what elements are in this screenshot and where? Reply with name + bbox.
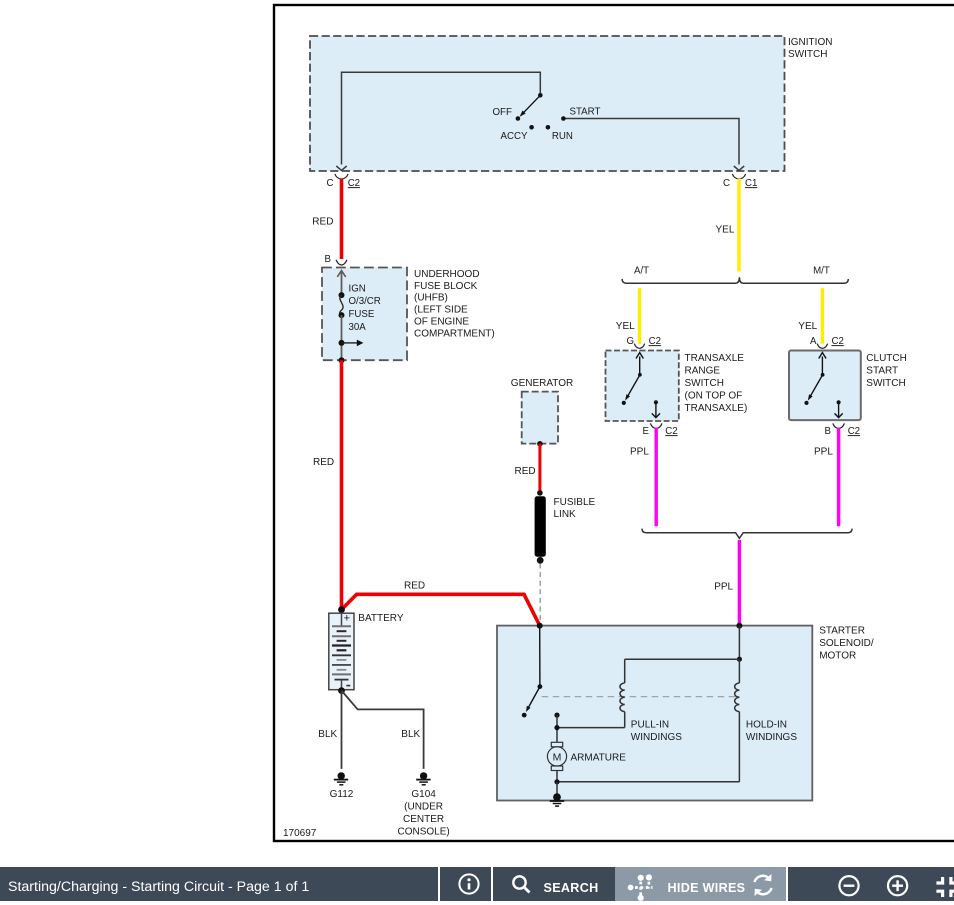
svg-text:HOLD-IN: HOLD-IN: [746, 719, 787, 730]
svg-text:FUSE BLOCK: FUSE BLOCK: [414, 281, 478, 292]
svg-text:(UHFB): (UHFB): [414, 293, 448, 304]
svg-text:(LEFT SIDE: (LEFT SIDE: [414, 305, 468, 316]
ground G112: [330, 772, 354, 800]
svg-text:RUN: RUN: [552, 131, 573, 142]
svg-text:PPL: PPL: [814, 446, 833, 457]
svg-text:PPL: PPL: [714, 582, 733, 593]
svg-text:ACCY: ACCY: [501, 131, 528, 142]
svg-text:STARTER: STARTER: [819, 626, 865, 637]
svg-text:LINK: LINK: [554, 509, 577, 520]
svg-text:COMPARTMENT): COMPARTMENT): [414, 328, 495, 339]
wire YEL M/T branch: [798, 288, 822, 344]
connector C2 pin E (transaxle range switch output): [643, 423, 678, 436]
svg-text:RANGE: RANGE: [685, 366, 721, 377]
wire ignition switch feed (left branch to C2): [336, 72, 540, 170]
node starter solenoid control feed: [736, 623, 742, 629]
starter solenoid contact switch: [522, 626, 543, 718]
svg-text:WINDINGS: WINDINGS: [746, 732, 797, 743]
inductor pull-in winding L1: [557, 659, 682, 743]
svg-text:SWITCH: SWITCH: [685, 378, 724, 389]
toolbar: [0, 867, 954, 901]
wire BLK (battery to G112): [318, 691, 341, 769]
svg-text:START: START: [866, 366, 898, 377]
wire PPL (clutch B to brace): [814, 428, 839, 527]
svg-text:FUSIBLE: FUSIBLE: [554, 497, 596, 508]
svg-text:RED: RED: [312, 217, 333, 228]
svg-text:OF ENGINE: OF ENGINE: [414, 317, 469, 328]
svg-text:BLK: BLK: [401, 729, 420, 740]
battery: [329, 606, 404, 694]
svg-text:START: START: [570, 107, 601, 118]
svg-text:OFF: OFF: [493, 107, 512, 118]
svg-text:IGNITION: IGNITION: [788, 37, 832, 48]
dashed mechanical link (solenoid plunger): [542, 696, 736, 698]
wire PPL (transaxle E to brace): [630, 428, 656, 527]
svg-text:E: E: [643, 426, 650, 437]
wire armature to ground: [554, 779, 559, 797]
svg-text:A: A: [810, 336, 817, 347]
toolbar title: [8, 870, 309, 904]
toolbar refresh icon: [750, 872, 776, 898]
svg-text:SOLENOID/: SOLENOID/: [819, 638, 874, 649]
generator box: [511, 378, 573, 447]
svg-text:(UNDER: (UNDER: [404, 802, 443, 813]
svg-text:CONSOLE): CONSOLE): [397, 826, 449, 837]
svg-text:PPL: PPL: [630, 446, 649, 457]
svg-text:ARMATURE: ARMATURE: [571, 753, 627, 764]
svg-text:UNDERHOOD: UNDERHOOD: [414, 269, 480, 280]
connector B (fuse block input): [325, 254, 348, 265]
starter solenoid/motor box: [497, 626, 874, 801]
svg-text:30A: 30A: [349, 322, 367, 333]
svg-text:G112: G112: [330, 789, 354, 800]
toolbar hide wires icon: [622, 869, 658, 901]
inductor hold-in winding L2: [557, 659, 797, 782]
connector C2 pin B (clutch start switch output): [825, 423, 861, 436]
brace A/T M/T split: [622, 266, 848, 284]
svg-text:C: C: [327, 178, 334, 189]
svg-text:MOTOR: MOTOR: [819, 651, 856, 662]
svg-text:B: B: [825, 426, 831, 437]
connector C2 pin A (clutch start switch): [810, 336, 844, 349]
svg-text:B: B: [325, 254, 331, 265]
wire YEL (C1 to brace): [716, 179, 740, 272]
ground starter motor: [550, 793, 564, 806]
wire PPL (brace to starter solenoid): [714, 540, 739, 626]
brace PPL merge: [642, 529, 852, 539]
svg-text:O/3/CR: O/3/CR: [349, 296, 381, 307]
diagram number 170697: [283, 828, 317, 839]
svg-text:RED: RED: [404, 581, 425, 592]
svg-text:M/T: M/T: [813, 266, 830, 277]
wire BLK (battery to G104): [342, 691, 424, 769]
underhood fuse block UHFB box: [322, 268, 495, 361]
transaxle range switch contact set: [622, 353, 660, 418]
toolbar collapse icon: [930, 870, 954, 900]
wire RED (fuse block to battery junction): [313, 360, 342, 609]
svg-text:(ON TOP OF: (ON TOP OF: [685, 390, 743, 401]
svg-text:C: C: [723, 178, 730, 189]
wire RED (generator to fusible link): [515, 444, 543, 496]
svg-text:YEL: YEL: [616, 321, 635, 332]
ignition switch IGNITION SWITCH box: [310, 36, 832, 171]
toolbar info icon: [454, 869, 484, 899]
svg-text:SWITCH: SWITCH: [866, 378, 905, 389]
svg-text:M: M: [553, 751, 562, 763]
svg-text:170697: 170697: [283, 828, 317, 839]
svg-text:TRANSAXLE: TRANSAXLE: [685, 353, 745, 364]
svg-text:BLK: BLK: [318, 729, 337, 740]
ground G104: [397, 772, 449, 837]
svg-text:FUSE: FUSE: [349, 309, 375, 320]
fuse IGN O/3/CR FUSE 30A: [337, 271, 381, 364]
fusible link: [535, 496, 596, 563]
wire ignition switch START branch to C1: [563, 119, 744, 171]
motor armature M: [547, 742, 626, 782]
svg-text:G: G: [627, 336, 635, 347]
toolbar search icon: [505, 869, 537, 901]
wire RED (battery feed to starter solenoid): [342, 581, 540, 626]
svg-text:A/T: A/T: [634, 266, 649, 277]
svg-text:IGN: IGN: [349, 283, 366, 294]
transaxle range switch box: [606, 351, 748, 422]
svg-text:SWITCH: SWITCH: [788, 49, 827, 60]
toolbar zoom out icon: [838, 871, 862, 899]
clutch start switch contact set: [804, 353, 842, 418]
wire YEL A/T branch: [616, 288, 640, 344]
connector C1 (ignition switch right): [723, 174, 757, 189]
toolbar zoom in icon: [886, 871, 910, 899]
svg-text:RED: RED: [515, 466, 536, 477]
svg-text:YEL: YEL: [798, 321, 817, 332]
node starter solenoid battery feed: [537, 623, 543, 629]
svg-text:G104: G104: [411, 789, 436, 800]
svg-text:CENTER: CENTER: [403, 814, 444, 825]
clutch start switch box: [789, 351, 907, 421]
page border frame: [274, 5, 954, 841]
connector C2 (ignition switch left): [327, 174, 361, 189]
svg-text:GENERATOR: GENERATOR: [511, 378, 573, 389]
svg-text:RED: RED: [313, 457, 334, 468]
wire armature feed: [554, 713, 559, 743]
ignition switch rotary contact S1: [493, 93, 601, 142]
svg-text:YEL: YEL: [716, 224, 735, 235]
wire windings feed: [625, 626, 742, 662]
svg-text:TRANSAXLE): TRANSAXLE): [685, 403, 748, 414]
svg-text:BATTERY: BATTERY: [358, 613, 404, 624]
toolbar hide wires segment: [615, 867, 786, 901]
svg-text:+: +: [344, 613, 350, 625]
svg-text:PULL-IN: PULL-IN: [631, 719, 669, 730]
svg-text:CLUTCH: CLUTCH: [866, 353, 907, 364]
connector C2 pin G (transaxle range switch): [627, 336, 661, 349]
svg-text:WINDINGS: WINDINGS: [631, 732, 682, 743]
wire RED (C2 to fuse block B): [312, 179, 341, 259]
wire dashed (fusible link to starter feed): [539, 564, 541, 625]
